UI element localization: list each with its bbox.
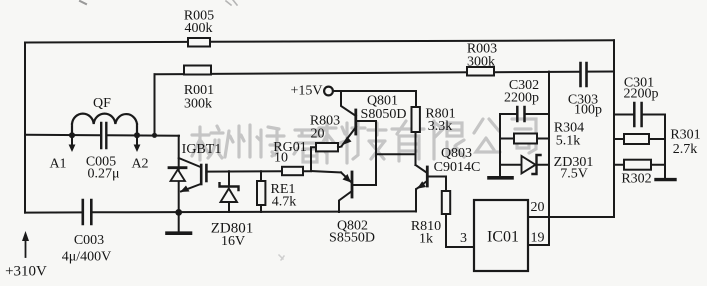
wire: +15V rail — [333, 90, 416, 92]
+15V terminal — [324, 87, 333, 96]
svg-text:3.3k: 3.3k — [428, 119, 453, 134]
ground bar — [489, 176, 512, 180]
wire: R803 branch riser — [311, 147, 316, 171]
svg-text:2200p: 2200p — [624, 87, 659, 102]
wire: R001 feed horizontal — [155, 72, 615, 75]
jiang — [257, 127, 284, 157]
svg-text:Q803: Q803 — [441, 146, 472, 161]
node junction R001 drop — [152, 133, 157, 138]
IGBT1 body — [179, 158, 201, 167]
you — [392, 121, 424, 161]
svg-text:S8550D: S8550D — [329, 231, 375, 246]
hang — [192, 126, 223, 160]
svg-text:300k: 300k — [184, 97, 212, 112]
ke — [319, 123, 348, 163]
svg-text:7.5V: 7.5V — [560, 167, 588, 182]
svg-text:+310V: +310V — [5, 264, 47, 280]
ground bar right — [656, 178, 675, 181]
+310V arrow terminal — [25, 240, 27, 257]
svg-text:IGBT1: IGBT1 — [182, 142, 222, 157]
svg-text:1k: 1k — [419, 232, 433, 247]
wire: R001 left drop — [154, 74, 156, 135]
zhou — [225, 125, 250, 157]
wire: top bus left segment — [25, 41, 188, 44]
node A2 junction — [134, 132, 140, 138]
resistor R803 — [316, 143, 338, 151]
wire: base node to R801 — [376, 153, 416, 155]
wire: right bus vertical — [613, 40, 615, 217]
wire: base tie Q801-Q802 — [375, 121, 377, 185]
svg-text:R301: R301 — [670, 128, 700, 143]
wire: pin19 — [528, 244, 549, 246]
svg-text:20: 20 — [311, 127, 325, 142]
wire: top bus right segment — [210, 40, 614, 42]
watermark — [192, 119, 536, 163]
svg-text:IC01: IC01 — [487, 229, 519, 246]
svg-text:A1: A1 — [49, 157, 66, 172]
svg-text:400k: 400k — [185, 21, 213, 36]
wire: pin20 — [528, 216, 614, 218]
speck mid-bottom — [279, 255, 284, 260]
node A1 junction — [69, 132, 75, 138]
resistor R801 — [415, 91, 417, 107]
IGBT1 damper diode — [169, 166, 186, 169]
wire: right cluster vertical — [664, 115, 666, 179]
ji — [352, 122, 386, 159]
svg-text:4.7k: 4.7k — [272, 195, 297, 210]
svg-text:16V: 16V — [221, 234, 245, 249]
resistor R301 — [614, 138, 665, 140]
node A1 arrow — [71, 138, 73, 146]
wire: bottom 310V bus — [25, 211, 416, 212]
wire: emitter rail to Q802 — [311, 171, 341, 172]
resistor R001 — [184, 66, 211, 75]
resistor R302 — [614, 164, 665, 166]
svg-text:300k: 300k — [467, 55, 495, 70]
xian — [434, 121, 464, 159]
resistor RE1 — [260, 171, 262, 212]
svg-text:19: 19 — [531, 231, 545, 246]
svg-text:QF: QF — [93, 96, 111, 111]
svg-text:5.1k: 5.1k — [556, 134, 581, 149]
svg-text:2.7k: 2.7k — [673, 142, 698, 157]
wire: gate lead — [206, 170, 311, 172]
capacitor C005 — [101, 123, 106, 148]
svg-text:C003: C003 — [74, 233, 104, 248]
zener ZD801 — [228, 171, 230, 186]
wire: feedback bus vertical — [548, 72, 550, 245]
ground node junction — [175, 209, 182, 216]
svg-text:A2: A2 — [131, 157, 148, 172]
IGBT1 collector rail — [178, 136, 180, 212]
svg-text:2200p: 2200p — [504, 91, 539, 106]
svg-text:4μ/400V: 4μ/400V — [62, 250, 112, 265]
svg-text:20: 20 — [531, 200, 545, 215]
resistor R003 — [467, 67, 494, 76]
ground — [178, 212, 180, 231]
svg-text:C9014C: C9014C — [434, 160, 481, 175]
node A2 arrow — [136, 138, 138, 146]
resistor R005 — [188, 38, 210, 47]
capacitor C303 — [581, 63, 587, 86]
wire: main tank horizontal — [25, 134, 179, 137]
wire: analog ground branch — [499, 114, 501, 176]
wire: left vertical bus — [24, 43, 26, 213]
resistor R810 — [445, 177, 447, 192]
transistor Q802 — [341, 172, 352, 182]
inductor QF — [72, 114, 137, 136]
transistor Q803 — [416, 165, 427, 173]
zener ZD301 — [500, 164, 549, 166]
svg-text:0.27μ: 0.27μ — [87, 167, 119, 182]
speck top-left — [80, 1, 86, 4]
capacitor C003 — [83, 200, 92, 224]
capacitor C301 — [614, 114, 665, 116]
svg-text:+15V: +15V — [290, 84, 322, 99]
svg-text:R302: R302 — [621, 172, 651, 187]
rui — [294, 130, 327, 162]
IC01 — [474, 200, 528, 271]
wire: R803 to Q801 emitter — [338, 146, 342, 149]
svg-text:100p: 100p — [574, 103, 602, 118]
transistor Q801 — [341, 91, 356, 116]
si — [512, 119, 536, 153]
capacitor C302 — [500, 113, 549, 115]
resistor R304 — [500, 138, 549, 140]
gong — [474, 119, 500, 152]
svg-text:S8050D: S8050D — [361, 107, 407, 122]
svg-text:3: 3 — [460, 231, 467, 246]
svg-text:10: 10 — [274, 151, 288, 166]
resistor RG01 — [282, 167, 303, 175]
